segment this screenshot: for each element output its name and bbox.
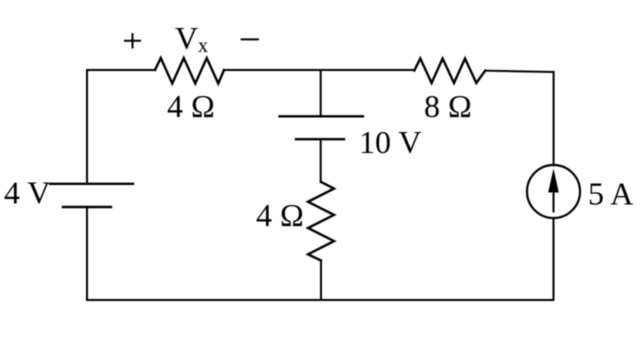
svg-text:10 V: 10 V xyxy=(359,124,422,160)
svg-text:V: V xyxy=(175,20,198,56)
svg-text:4 V: 4 V xyxy=(4,175,51,211)
svg-text:5 A: 5 A xyxy=(588,176,633,212)
svg-text:4 Ω: 4 Ω xyxy=(167,88,215,124)
svg-text:x: x xyxy=(198,35,208,57)
svg-text:4 Ω: 4 Ω xyxy=(256,197,304,233)
svg-text:8 Ω: 8 Ω xyxy=(424,88,472,124)
